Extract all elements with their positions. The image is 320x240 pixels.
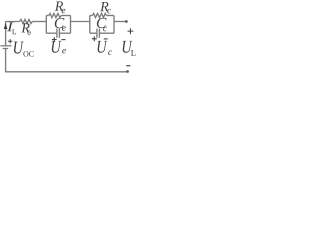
- wire R0 to block1: [32, 21, 46, 23]
- subscript c of Cc: [103, 27, 107, 32]
- node left edge block2: [89, 16, 91, 34]
- label Ue: [52, 41, 62, 53]
- wire to resistor Re: [46, 15, 49, 17]
- wire Re to right edge: [61, 15, 70, 17]
- subscript c of Uc: [108, 51, 112, 56]
- label IL: [7, 22, 14, 31]
- battery plus sign: [8, 39, 12, 43]
- label R0: [21, 23, 29, 32]
- label Rc: [100, 2, 108, 11]
- battery UOC long plate: [0, 45, 11, 47]
- subscript c of Rc: [107, 9, 111, 14]
- output plus sign: [128, 28, 134, 34]
- wire Rc to right edge: [106, 15, 114, 17]
- battery UOC short plate: [3, 48, 9, 50]
- subscript L of UL: [131, 50, 136, 56]
- current arrow IL: [4, 23, 8, 29]
- wire block1 to block2: [71, 21, 90, 23]
- resistor Re: [49, 13, 61, 17]
- wire Cc to right edge: [100, 32, 114, 34]
- wire to capacitor Cc: [90, 32, 97, 34]
- capacitor Ce plus sign: [52, 37, 57, 42]
- subscript L of IL: [12, 29, 16, 34]
- resistor Rc: [92, 13, 106, 17]
- label Uc: [98, 41, 108, 53]
- capacitor Ce plate 1: [56, 29, 58, 38]
- label Ce: [55, 18, 65, 28]
- capacitor Cc plus sign: [92, 36, 97, 41]
- node + terminal dot: [125, 20, 128, 23]
- subscript e of Re: [62, 9, 66, 14]
- subscript 0 of R0: [28, 30, 31, 35]
- capacitor Ce minus sign: [62, 39, 66, 41]
- wire battery to bottom rail: [6, 49, 128, 72]
- node right edge block1: [70, 16, 72, 34]
- capacitor Cc plate 1: [96, 29, 98, 38]
- label Re: [55, 2, 63, 11]
- label UOC: [14, 42, 24, 54]
- node - terminal dot: [126, 70, 129, 73]
- label UL: [123, 41, 133, 53]
- wire to capacitor Ce: [46, 32, 56, 34]
- node right edge block2: [113, 16, 115, 34]
- capacitor Ce plate 2: [58, 29, 60, 38]
- subscript e of Ce: [62, 26, 66, 31]
- output minus sign: [126, 65, 130, 67]
- wire Ce to right edge: [60, 32, 71, 34]
- label Cc: [97, 18, 107, 28]
- wire to resistor Rc: [90, 15, 93, 17]
- subscript OC of UOC: [23, 51, 28, 57]
- wire block2 to + terminal: [114, 21, 126, 23]
- capacitor Cc minus sign: [104, 38, 108, 40]
- subscript e of Ue: [62, 49, 66, 54]
- wire top-left from rail to R0: [6, 22, 20, 46]
- node left edge block1: [45, 16, 47, 34]
- resistor R0: [20, 19, 33, 23]
- capacitor Cc plate 2: [98, 29, 100, 38]
